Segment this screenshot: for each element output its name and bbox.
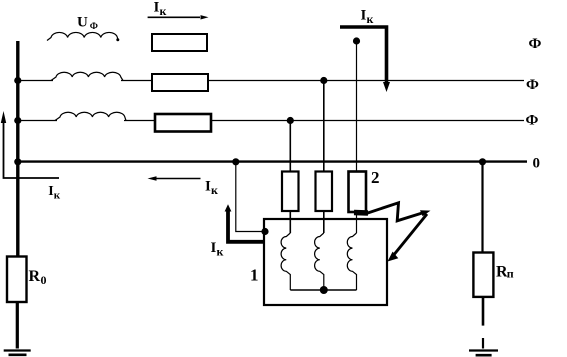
svg-text:Ф: Ф [526,77,539,93]
wire phase C drop to fuse [289,121,291,172]
wire motor star point [290,289,356,291]
motor case box 1 [264,219,387,305]
motor winding phase A [347,233,356,290]
wire neutral 0 [16,160,527,162]
svg-text:0: 0 [533,156,541,172]
svg-text:R: R [29,268,41,285]
wire fuse C to motor [289,211,291,233]
node phase C tap [287,117,294,124]
lightning fault arrow to motor case [354,210,368,216]
svg-text:0: 0 [41,273,47,287]
wire Rp to ground [482,297,485,326]
wire neutral protective conductor to motor case [236,162,264,232]
node neutral tap on bus [14,158,21,165]
svg-text:п: п [507,267,514,281]
svg-text:к: к [211,183,218,197]
fuse phase B [316,172,333,212]
wire fuse B to motor [323,211,325,233]
svg-text:U: U [77,15,88,31]
fuse phase A U2 [349,172,367,213]
arrow Ik neutral current (left) [154,178,201,180]
node motor star point [320,286,328,294]
node phase B tap [320,77,327,84]
svg-text:Ф: Ф [526,113,539,129]
resistor breaker phase A [152,34,207,51]
wire phase B drop to fuse [323,81,325,172]
svg-text:к: к [160,4,167,18]
svg-text:Ф: Ф [529,36,542,52]
wire phase A drop to fuse [356,41,358,171]
resistor breaker phase C [155,114,211,132]
inductor winding phase C [55,112,126,120]
wire R0 to ground [16,302,19,349]
wire phase C (lower phase line) [16,120,57,122]
svg-text:Ф: Ф [90,22,98,32]
arrow Ik return path (up along far left) [4,118,60,178]
ground right (repeated earth) [482,338,484,349]
arrow Ik fault current phase A (right) [148,16,200,18]
fuse phase C [282,172,299,212]
arrow Ik case current bent (up) [228,211,263,242]
resistor R0 (system earthing) [7,257,27,303]
ground left (system earth) [4,349,31,351]
motor winding phase C [281,233,290,290]
svg-text:2: 2 [371,168,380,187]
wire neutral to Rp [481,162,483,253]
inductor winding phase A [47,32,118,40]
wire fuse A to motor [356,212,358,233]
inductor winding phase B [51,72,123,80]
node phase B tap on bus [14,77,21,84]
svg-text:к: к [54,189,61,201]
resistor breaker phase B [152,74,208,91]
wire left supply bus [16,41,19,257]
node phase C tap on bus [14,117,21,124]
svg-text:к: к [217,245,224,259]
arrow Ik bent thick (top right, down) [340,27,387,85]
motor winding phase B [315,233,324,290]
svg-text:1: 1 [250,265,259,284]
node phase A tap [353,37,360,44]
node neutral to Rp [479,158,486,165]
wire phase B (middle phase line) [16,80,53,82]
resistor Rp (repeated earthing) [473,253,493,297]
node neutral to motor case drop [232,158,239,165]
node case connection [261,228,268,235]
svg-text:к: к [367,12,374,26]
